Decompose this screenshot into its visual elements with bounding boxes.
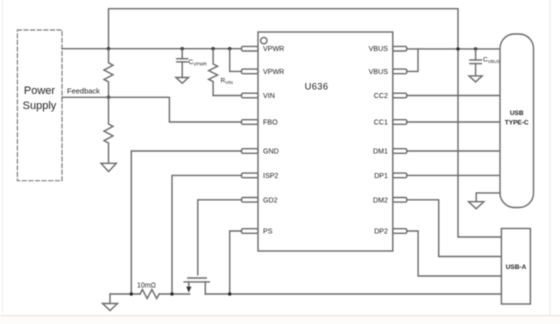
svg-text:10mΩ: 10mΩ xyxy=(137,283,156,290)
wire GD2 to gate xyxy=(198,200,242,275)
junction VPWR2 bracket xyxy=(228,47,231,50)
svg-text:CC2: CC2 xyxy=(374,92,388,100)
wire ISP2 to bottom rail xyxy=(172,175,242,294)
pin ISP2 stub xyxy=(242,173,259,178)
pin VPWR 1 stub xyxy=(242,46,259,51)
wire top rail xyxy=(109,9,459,49)
pin labels right xyxy=(369,45,389,235)
junction GND wire / bottom rail xyxy=(130,292,133,295)
resistor R_VIN xyxy=(209,49,242,96)
pin VBUS 1 stub xyxy=(393,46,407,51)
wire DP1 xyxy=(407,174,500,176)
ground TYPE-C xyxy=(469,202,484,209)
USB-A connector xyxy=(501,229,530,305)
pin labels left xyxy=(263,45,284,235)
wire GND to bottom rail xyxy=(131,151,241,294)
pin PS stub xyxy=(242,229,259,234)
svg-text:PS: PS xyxy=(263,228,273,236)
wire VBUS rail xyxy=(407,48,500,50)
svg-text:VIN: VIN xyxy=(263,92,275,100)
resistor 10mOhm sense xyxy=(137,283,159,299)
transistor Q1 NMOS switch xyxy=(184,278,209,294)
wire VBUS2 bracket xyxy=(407,49,418,72)
svg-text:TYPE-C: TYPE-C xyxy=(505,120,529,127)
svg-text:Supply: Supply xyxy=(23,100,57,112)
wire feedback from supply xyxy=(62,96,109,98)
wire bottom right to USB-A xyxy=(205,293,501,295)
pin DM2 stub xyxy=(393,198,407,203)
svg-text:DP1: DP1 xyxy=(374,172,388,180)
svg-text:VPWR: VPWR xyxy=(263,68,284,76)
wire VPWR2 bracket xyxy=(230,49,242,72)
junction R_VIN tap xyxy=(211,47,214,50)
pin CC2 stub xyxy=(393,93,407,98)
power supply box xyxy=(17,30,62,181)
pin VIN stub xyxy=(242,93,259,98)
junction VBUS rail / feed xyxy=(456,47,459,50)
junction C_VPWR tap xyxy=(181,47,184,50)
wire CC2 xyxy=(407,95,500,97)
svg-text:ISP2: ISP2 xyxy=(263,172,278,180)
junction PS wire / bottom rail xyxy=(228,292,231,295)
ground feedback divider xyxy=(101,163,116,171)
pin GND stub xyxy=(242,149,259,154)
wire resistor to source xyxy=(159,293,190,295)
svg-text:DM2: DM2 xyxy=(373,196,388,204)
wire PS to bottom rail xyxy=(230,231,242,294)
USB TYPE-C connector xyxy=(500,34,534,208)
svg-text:USB: USB xyxy=(510,110,524,117)
wire VPWR rail xyxy=(62,48,242,50)
resistor feedback divider upper xyxy=(104,49,113,98)
wire bottom left ground rail xyxy=(110,293,140,295)
wire VBUS feed to USB-A xyxy=(458,49,501,237)
svg-text:VBUS: VBUS xyxy=(369,68,389,76)
pin VPWR 2 stub xyxy=(242,69,259,74)
junction C_VBUS tap xyxy=(474,47,477,50)
svg-text:Feedback: Feedback xyxy=(67,87,100,96)
capacitor C_VPWR xyxy=(177,49,208,78)
svg-text:VPWR: VPWR xyxy=(263,45,284,53)
pin VBUS 2 stub xyxy=(393,69,407,74)
resistor feedback divider lower xyxy=(104,97,113,163)
svg-text:DM1: DM1 xyxy=(373,148,388,156)
svg-text:U636: U636 xyxy=(305,82,329,92)
junction top rail / VPWR rail xyxy=(107,47,110,50)
pin DP1 stub xyxy=(393,173,407,178)
svg-text:DP2: DP2 xyxy=(374,228,388,236)
svg-text:VBUS: VBUS xyxy=(369,45,389,53)
ground C_VBUS xyxy=(469,76,482,82)
wire CC1 xyxy=(407,121,500,123)
pin CC1 stub xyxy=(393,120,407,125)
junction feedback node xyxy=(107,96,110,99)
svg-text:FBO: FBO xyxy=(263,119,278,127)
wire DM2 to USB-A xyxy=(407,200,502,257)
ground bottom left xyxy=(103,294,118,311)
svg-text:GD2: GD2 xyxy=(263,196,278,204)
svg-text:GND: GND xyxy=(263,148,279,156)
svg-text:Power: Power xyxy=(24,85,56,97)
wire DM1 xyxy=(407,150,500,152)
pin FBO stub xyxy=(242,120,259,125)
IC U636 body xyxy=(258,32,393,251)
pin DP2 stub xyxy=(393,229,407,234)
capacitor C_VBUS xyxy=(470,49,500,76)
svg-text:CC1: CC1 xyxy=(374,119,388,127)
wire TYPE-C ground branch xyxy=(476,193,500,202)
wire feedback to FBO xyxy=(109,97,242,122)
ground C_VPWR xyxy=(176,78,189,84)
wire DP2 to USB-A xyxy=(407,231,502,276)
svg-text:USB-A: USB-A xyxy=(506,264,527,271)
junction ISP2 wire / bottom rail xyxy=(170,292,173,295)
pin DM1 stub xyxy=(393,149,407,154)
pin GD2 stub xyxy=(242,198,259,203)
